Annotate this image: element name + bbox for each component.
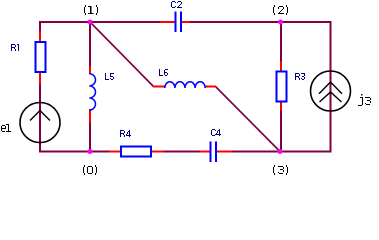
wire right branch through j3 bbox=[330, 21, 332, 152]
label C2 bbox=[171, 1, 182, 8]
resistor R3 bbox=[277, 61, 287, 111]
wire top from C2 to right corner bbox=[190, 21, 332, 23]
wire node0 to R4 bbox=[90, 151, 110, 153]
node 2 label bbox=[273, 5, 288, 15]
label R1 bbox=[11, 44, 19, 51]
node 1 bbox=[88, 20, 93, 25]
wire L5 branch vertical bbox=[89, 21, 91, 152]
label j3 bbox=[358, 94, 371, 106]
wire diagonal node1 to L6 bbox=[90, 22, 154, 87]
label L6 bbox=[159, 69, 168, 76]
label R3 bbox=[295, 73, 305, 80]
capacitor C2 bbox=[160, 12, 190, 33]
node 1 label bbox=[84, 5, 98, 15]
label e1 bbox=[1, 124, 11, 132]
inductor L5 bbox=[89, 66, 95, 123]
node 0 label bbox=[83, 165, 97, 175]
node 3 label bbox=[273, 165, 288, 175]
source e1 bbox=[20, 103, 60, 143]
wire diagonal L6 to node3 bbox=[216, 87, 281, 152]
label R4 bbox=[120, 130, 131, 137]
node 3 bbox=[278, 149, 283, 154]
node 2 bbox=[278, 20, 283, 25]
inductor L6 bbox=[153, 82, 216, 88]
label C4 bbox=[211, 129, 221, 136]
wire top from left corner to C2 bbox=[40, 21, 161, 23]
wire C4 to node3 and right corner bbox=[231, 151, 332, 153]
wire bottom left segment bbox=[39, 151, 91, 153]
node 0 bbox=[88, 149, 93, 154]
resistor R1 bbox=[36, 31, 46, 85]
wire R3 branch vertical bbox=[280, 21, 282, 152]
capacitor C4 bbox=[200, 142, 232, 163]
resistor R4 bbox=[109, 147, 164, 157]
label L5 bbox=[105, 73, 114, 80]
wire left branch vertical bbox=[39, 21, 41, 153]
source j3 bbox=[311, 71, 351, 111]
wire R4 to C4 bbox=[163, 151, 201, 153]
